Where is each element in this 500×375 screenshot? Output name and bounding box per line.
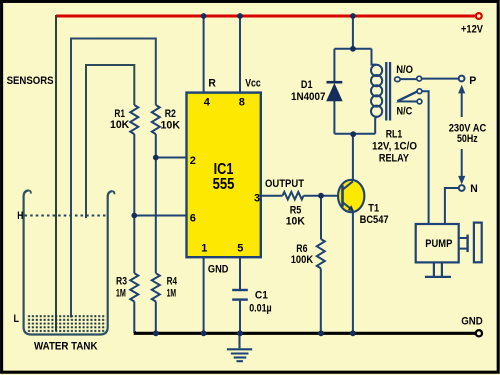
+12V rail (red): [56, 15, 476, 18]
T1 collector lead: [343, 181, 353, 190]
svg-text:3: 3: [254, 193, 260, 205]
junction R5/R6/base node: [318, 193, 324, 199]
relay armature blade: [397, 92, 417, 102]
svg-text:PUMP: PUMP: [425, 238, 452, 250]
ground rail: [134, 332, 476, 335]
mains down arrow: [461, 149, 463, 177]
svg-text:N/O: N/O: [396, 64, 413, 76]
svg-text:RL1: RL1: [386, 129, 403, 141]
wire R3 to rail corner: [134, 301, 136, 332]
svg-text:100K: 100K: [291, 254, 313, 266]
relay core bars: [385, 62, 387, 121]
sensor probe B (low level) wire: [71, 39, 156, 318]
svg-text:R1: R1: [114, 108, 125, 120]
P terminal: [459, 76, 465, 82]
svg-text:555: 555: [213, 176, 235, 193]
svg-text:10K: 10K: [161, 119, 181, 131]
svg-text:1: 1: [201, 243, 207, 255]
svg-text:10K: 10K: [110, 119, 129, 131]
N terminal: [459, 185, 465, 191]
pump stand base: [425, 276, 451, 278]
wire pin 6: [134, 215, 186, 217]
relay N/C fixed contact line: [398, 100, 417, 102]
T1 base bar: [341, 185, 344, 206]
svg-text:P: P: [469, 75, 476, 87]
tank left rim curl: [29, 190, 31, 193]
wire C1 to ground rail: [239, 301, 241, 334]
T1 emitter arrow: [348, 205, 354, 211]
svg-text:RELAY: RELAY: [379, 153, 410, 165]
svg-text:+12V: +12V: [461, 23, 483, 35]
svg-text:2: 2: [190, 155, 196, 167]
svg-text:1M: 1M: [167, 288, 177, 300]
svg-text:50Hz: 50Hz: [457, 133, 478, 145]
pump shaft lines: [459, 237, 468, 239]
junction R2/R4/pin2 node: [153, 155, 159, 161]
diode D1: [327, 82, 343, 101]
wire coil branch top: [372, 49, 377, 65]
wire rail to relay: [352, 16, 354, 49]
wire junction to R6: [320, 196, 322, 239]
wire N terminal to pump: [445, 188, 459, 224]
svg-text:D1: D1: [301, 79, 313, 91]
svg-text:L: L: [14, 313, 20, 325]
svg-text:T1: T1: [368, 203, 379, 215]
svg-text:WATER TANK: WATER TANK: [34, 340, 98, 352]
relay N/O fixed contact: [395, 77, 401, 82]
svg-text:Vcc: Vcc: [245, 78, 261, 90]
H level dashed line: [25, 215, 107, 217]
pump flange bar: [466, 235, 468, 252]
svg-text:N: N: [470, 183, 478, 195]
junction relay top bar: [350, 46, 356, 52]
wire pin 3 to R5: [261, 195, 283, 197]
wire pin 1 to ground rail: [203, 257, 205, 333]
svg-text:OUTPUT: OUTPUT: [265, 178, 304, 190]
svg-text:1M: 1M: [116, 288, 126, 300]
junction C1 on ground rail: [237, 330, 243, 336]
junction relay feed on +12V rail: [350, 13, 356, 19]
svg-text:BC547: BC547: [360, 214, 389, 226]
relay armature pivot circle: [417, 89, 422, 94]
junction R1/R3/pin6 node: [131, 213, 137, 219]
resistor R6: [317, 239, 325, 268]
wire pin 5 to C1: [239, 257, 241, 289]
svg-text:8: 8: [239, 96, 245, 108]
wire relay top bar: [334, 48, 371, 50]
capacitor C1: [232, 290, 248, 300]
wire relay to T1 collector: [352, 134, 354, 181]
wire armature pole to pump: [422, 91, 429, 224]
pump box: [416, 224, 459, 262]
wire pin 8 to rail: [239, 16, 241, 93]
wire R4 to rail: [155, 301, 157, 333]
svg-text:C1: C1: [255, 289, 268, 301]
wire pole to P terminal: [422, 78, 459, 80]
wire pin 4 to rail: [203, 16, 205, 93]
sensor probe C (high level) wire: [86, 65, 134, 218]
svg-text:R4: R4: [167, 276, 178, 288]
svg-text:6: 6: [190, 213, 196, 225]
wire pin 2: [156, 157, 187, 159]
wire R1 to R3 column: [133, 134, 135, 273]
junction pin1 on ground rail: [201, 330, 207, 336]
svg-text:SENSORS: SENSORS: [7, 75, 54, 87]
op-amp/timer IC1 555 box: [187, 93, 261, 258]
svg-text:5: 5: [237, 243, 243, 255]
ground symbol: [227, 333, 252, 361]
relay N/C contact circle: [417, 99, 422, 104]
wire N/O contact to pole: [400, 78, 416, 80]
svg-text:R3: R3: [116, 276, 127, 288]
junction R6 on ground rail: [318, 330, 324, 336]
GND terminal: [476, 330, 482, 336]
svg-text:10K: 10K: [286, 216, 305, 228]
svg-text:N/C: N/C: [397, 105, 413, 117]
svg-text:R: R: [208, 78, 216, 90]
wire coil bottom lead: [375, 117, 376, 134]
junction pin8 on +12V rail: [237, 13, 243, 19]
wire R6 to ground rail: [320, 268, 322, 333]
relay RL1 coil: [371, 65, 382, 117]
wire R5 to T1 base: [304, 195, 343, 197]
junction pin4 on +12V rail: [201, 13, 207, 19]
svg-text:R5: R5: [290, 204, 302, 216]
wire T1 emitter to ground rail: [352, 211, 354, 334]
svg-text:GND: GND: [461, 316, 483, 328]
junction relay bottom bar: [350, 131, 356, 137]
svg-text:4: 4: [204, 96, 211, 108]
resistor R5: [283, 192, 304, 200]
wire R2 to R4 column: [155, 134, 157, 273]
+12V terminal: [476, 13, 482, 19]
pump stand legs: [433, 262, 435, 276]
wire diode branch: [333, 49, 335, 134]
resistor R1: [130, 105, 138, 134]
resistor R3: [130, 273, 138, 301]
T1 emitter lead: [343, 202, 352, 209]
junction R4 on ground rail: [153, 330, 159, 336]
tank right rim curl: [112, 191, 114, 194]
svg-text:GND: GND: [208, 264, 229, 276]
mains up arrow: [461, 92, 463, 117]
water tank walls: [24, 190, 113, 334]
svg-text:12V, 1C/O: 12V, 1C/O: [372, 141, 417, 153]
transistor T1 body: [338, 180, 364, 212]
svg-text:0.01µ: 0.01µ: [249, 303, 272, 315]
sensor probe A (common, +12V) wire: [55, 15, 57, 331]
pump motor block: [474, 223, 482, 263]
resistor R4: [152, 273, 160, 301]
relay pole contact circle: [417, 76, 422, 81]
wire relay bottom bar: [334, 133, 375, 135]
junction T1 emitter on ground rail: [350, 330, 356, 336]
resistor R2: [152, 105, 160, 134]
svg-text:1N4007: 1N4007: [291, 91, 326, 103]
armature tip: [396, 100, 400, 103]
svg-text:H: H: [17, 210, 23, 222]
